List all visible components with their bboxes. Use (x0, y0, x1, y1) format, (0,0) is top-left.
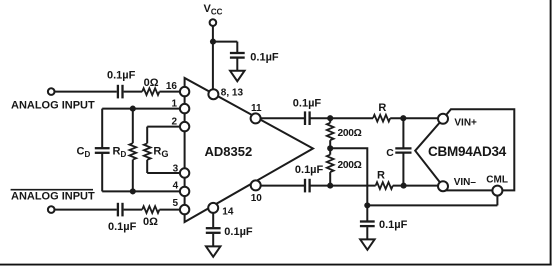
wire C5 to R3 (310, 117, 373, 119)
wire C3 top lead (236, 42, 238, 53)
wire pin 14 to C4 (212, 208, 214, 227)
wire pin 4 net (102, 190, 180, 192)
svg-text:0.1µF: 0.1µF (108, 221, 137, 233)
wire C7 top lead (366, 205, 368, 220)
svg-text:1: 1 (171, 98, 177, 109)
wire R2 to pin 5 (159, 209, 180, 211)
pin VIN- of U2 (438, 181, 448, 191)
ADC U2 CBM94AD34 box outline (443, 109, 514, 190)
resistor R5 200ohm upper (327, 123, 334, 140)
wire R5 to midpoint (329, 140, 331, 148)
pin 14 of U1 (208, 203, 218, 213)
svg-text:0.1µF: 0.1µF (295, 164, 324, 176)
svg-text:0.1µF: 0.1µF (250, 52, 279, 64)
svg-text:CML: CML (486, 175, 508, 186)
svg-text:5: 5 (172, 198, 178, 209)
svg-text:16: 16 (166, 81, 178, 92)
wire up to CML pin (496, 195, 498, 205)
capacitor C5 0.1uF top output (304, 111, 306, 125)
capacitor C4 0.1uF pin 14 (206, 227, 221, 229)
svg-text:11: 11 (251, 103, 262, 114)
svg-text:0Ω: 0Ω (144, 77, 159, 89)
svg-text:0.1µF: 0.1µF (107, 70, 136, 82)
wire C1 to R1 (124, 91, 143, 93)
wire R4 to VIN- (393, 185, 438, 187)
resistor R3 R top (373, 115, 390, 122)
wire C8 bottom lead (402, 153, 404, 186)
wire RG top lead (146, 127, 148, 144)
svg-text:200Ω: 200Ω (338, 128, 362, 139)
svg-text:10: 10 (251, 193, 263, 204)
svg-text:VIN+: VIN+ (454, 117, 477, 128)
wire RG to pin 3 (147, 172, 180, 174)
svg-text:0Ω: 0Ω (143, 216, 158, 228)
wire midpoint to CML node (crosses pin10 line) (330, 148, 367, 205)
terminal VCC (210, 19, 217, 26)
wire R3 to VIN+ (390, 117, 438, 119)
op-amp U1 AD8352 triangle body (185, 78, 313, 222)
capacitor C2 0.1uF bottom input (117, 203, 119, 217)
wire C6 to R4 (310, 185, 375, 187)
pin 5 of U1 (180, 205, 189, 214)
svg-text:ANALOG INPUT: ANALOG INPUT (11, 100, 95, 112)
svg-text:ANALOG INPUT: ANALOG INPUT (11, 191, 95, 203)
capacitor C6 0.1uF bottom output (304, 179, 306, 193)
wire to C3 (213, 41, 237, 43)
capacitor CD (95, 147, 110, 149)
pin 3 of U1 (180, 168, 189, 177)
wire pin1 net down to CD (101, 109, 103, 148)
capacitor C3 0.1uF VCC decoupling (230, 52, 245, 54)
capacitor C8 C (395, 147, 411, 149)
svg-text:0.1µF: 0.1µF (293, 98, 322, 110)
svg-text:14: 14 (222, 206, 234, 217)
capacitor C1 0.1uF top input (117, 85, 119, 99)
junction pin11 line / R5 (327, 115, 333, 121)
svg-text:VIN–: VIN– (454, 177, 477, 188)
svg-text:3: 3 (173, 163, 179, 174)
svg-text:8, 13: 8, 13 (221, 87, 244, 98)
svg-text:200Ω: 200Ω (338, 160, 362, 171)
junction top line / C8 (400, 115, 406, 121)
wire C2 to R2 (124, 209, 143, 211)
svg-text:0.1µF: 0.1µF (224, 226, 253, 238)
wire CD to pin4 net (101, 153, 103, 191)
wire midpoint to R6 (329, 148, 331, 154)
resistor RD (129, 143, 136, 159)
junction midpoint node (327, 145, 333, 151)
pin 4 of U1 (180, 187, 189, 196)
terminal top ANALOG INPUT (48, 88, 55, 95)
wire pin 11 to C5 (261, 117, 305, 119)
ground below C7 (360, 239, 374, 249)
svg-text:AD8352: AD8352 (205, 144, 253, 159)
pin 8,13 of U1 (208, 89, 218, 99)
svg-text:CBM94AD34: CBM94AD34 (428, 144, 507, 159)
wire pin 10 to C6 (261, 185, 305, 187)
terminal bottom ANALOG INPUT (48, 206, 55, 213)
junction RD/pin1 net (130, 106, 136, 112)
resistor R6 200ohm lower (327, 155, 334, 172)
resistor RG (144, 143, 151, 159)
wire C4 to ground (212, 234, 214, 247)
svg-text:R: R (378, 102, 386, 114)
wire C7 to ground (366, 227, 368, 239)
pin 2 of U1 (180, 122, 189, 131)
junction VCC decoupling tap (210, 39, 216, 45)
wire pin 1 net (102, 108, 180, 110)
svg-text:R: R (377, 170, 385, 182)
svg-text:0.1µF: 0.1µF (379, 219, 408, 231)
wire R1 to pin 16 (159, 91, 180, 93)
resistor R4 R bottom (376, 182, 393, 189)
svg-text:2: 2 (171, 116, 177, 127)
pin 16 of U1 (180, 87, 189, 96)
svg-text:C: C (386, 148, 394, 159)
pin 11 of U1 (251, 113, 261, 123)
wire C3 to ground (236, 58, 238, 70)
pin CML of U2 (492, 186, 502, 196)
wire pin 2 to RG (147, 126, 180, 128)
wire R6 bottom lead (329, 172, 331, 186)
pin 1 of U1 (180, 104, 189, 113)
pin VIN+ of U2 (438, 114, 448, 124)
capacitor C7 0.1uF CML decoupling (360, 220, 375, 222)
resistor R2 0ohm bottom input (142, 206, 159, 213)
junction RD/pin4 net (130, 188, 136, 194)
junction bottom line / C8 (401, 183, 407, 189)
wire RD top lead (132, 109, 134, 144)
wire RD bottom lead (132, 160, 134, 192)
wire R5 top lead (329, 118, 331, 123)
ground below C4 (206, 246, 220, 256)
wire C8 top lead (402, 118, 404, 148)
ADC U2 input chevron (415, 119, 443, 186)
svg-text:4: 4 (173, 181, 179, 192)
wire top input to C1 (55, 91, 117, 93)
wire RG bottom lead (146, 160, 148, 173)
ground below C3 (230, 71, 244, 81)
junction CML node (364, 202, 370, 208)
pin 10 of U1 (251, 180, 261, 190)
wire VCC down to pins 8,13 (212, 26, 214, 90)
wire CML node to below CML pin (367, 204, 497, 206)
junction pin10 line / R6 (327, 183, 333, 189)
wire bottom input to C2 (55, 209, 117, 211)
resistor R1 0ohm top input (142, 88, 159, 95)
